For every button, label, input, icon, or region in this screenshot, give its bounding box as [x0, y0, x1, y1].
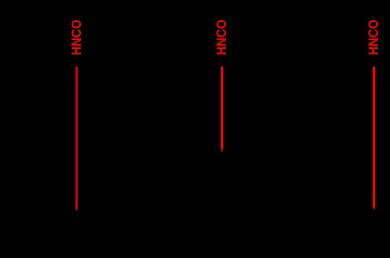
svg-text:HNCO: HNCO: [68, 20, 84, 56]
HNCO marker line 1 fade tail: [76, 209, 78, 211]
HNCO marker line 2: [221, 67, 223, 150]
HNCO marker line 2 fade tail: [221, 149, 223, 152]
svg-text:HNCO: HNCO: [365, 20, 381, 56]
HNCO marker line 3: [373, 67, 375, 208]
HNCO marker line 1: [76, 67, 78, 210]
HNCO marker line 3 fade tail: [373, 208, 375, 210]
svg-text:HNCO: HNCO: [213, 20, 229, 56]
